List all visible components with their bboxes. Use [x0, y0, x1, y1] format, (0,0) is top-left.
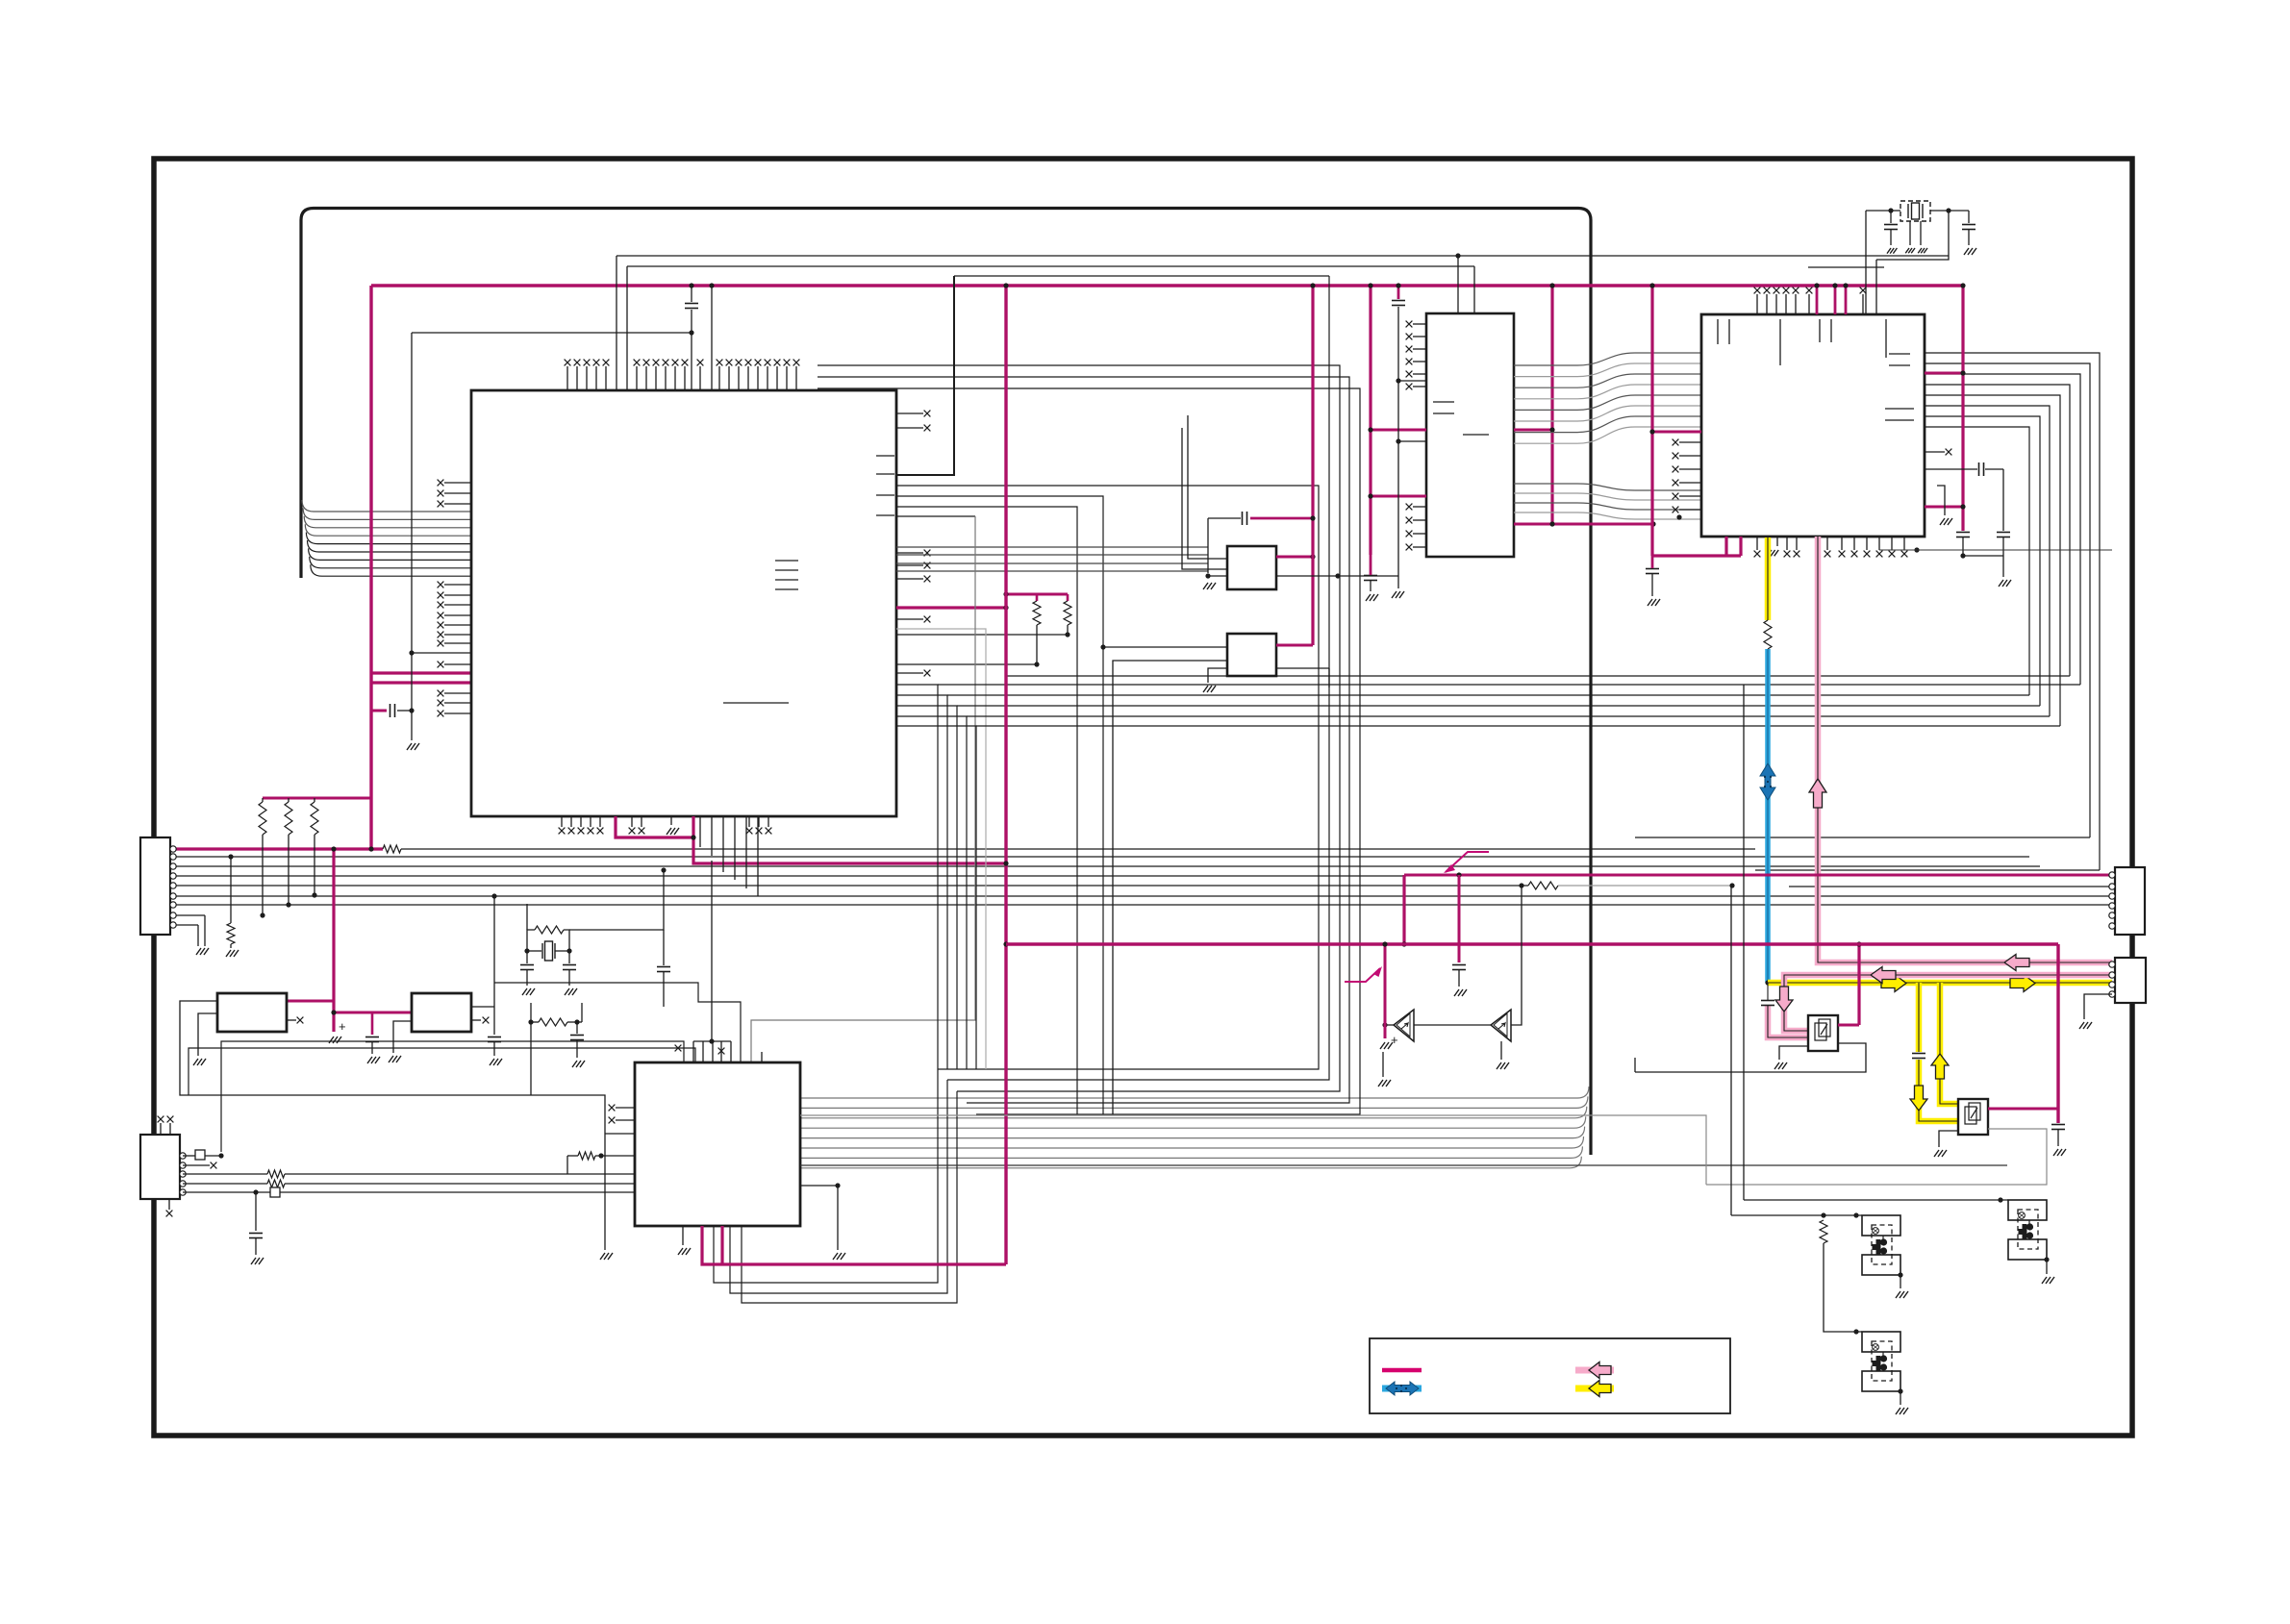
IC U1 (system controller) [471, 390, 896, 816]
buffer A2 [1491, 1010, 1511, 1041]
RC cluster center [528, 1019, 533, 1024]
power bus +B vertical left (magenta) [369, 286, 372, 849]
pin marks: U1 right internal [876, 455, 894, 457]
wire CN1 pin6 [171, 895, 2112, 897]
wire gray L x1025 [896, 629, 986, 1069]
ground X1 a [1905, 248, 1915, 253]
ground C19 [522, 988, 535, 995]
highlighted net: pink C via C17 [1768, 1006, 1808, 1037]
IC U2 (RAM) [1426, 313, 1514, 557]
power branch x1425 (magenta) [1369, 286, 1371, 555]
wire U3 gnd stub [1937, 486, 1945, 515]
wire U7 out east [1276, 575, 1398, 577]
resistor R14 [267, 1180, 285, 1187]
wire X1 case gnd a [1909, 221, 1911, 245]
node U6/bus [491, 893, 496, 898]
node R22 [1519, 883, 1523, 887]
wire x1425 to U2 (magenta) [1371, 429, 1426, 432]
ground PC3 [1896, 1408, 1908, 1414]
wire CN2 pin1 [183, 1155, 195, 1157]
wire into A1 [1385, 1024, 1394, 1026]
pin stubs: U2 left [1413, 323, 1426, 325]
wire to PC2 [1731, 1214, 1862, 1216]
capacitor C5 [488, 1037, 501, 1042]
wire +B to U1 left pin 2 (magenta) [371, 681, 471, 684]
ground Q2 [1934, 1150, 1947, 1157]
ground C8 [1366, 594, 1378, 601]
wire X1 left to U3 [1865, 211, 1867, 314]
node R3 junction [312, 892, 316, 897]
node X1 left [1888, 208, 1893, 212]
wire C7 gnd leg [1207, 518, 1209, 573]
wire U1 supply to bus x1046 (magenta) [693, 837, 1006, 863]
arrow: pink down on B [1775, 987, 1793, 1012]
wire U7 in b [1182, 428, 1227, 569]
node C1/gnd line [409, 708, 414, 712]
wire to CN3 pin2 [1789, 886, 2112, 887]
wire bus down to Q1 (magenta) [1857, 944, 1860, 1025]
crystal X2 circuit [527, 950, 541, 952]
IC U5 (reset) [217, 993, 287, 1032]
wire U1 bottom supply U-link (magenta) [616, 816, 693, 837]
ground U3 bottom [1768, 550, 1779, 556]
ground C13 [1648, 599, 1660, 606]
wire x1582 down to A2 [1511, 886, 1522, 1025]
node rail y266 / U2 pin [1455, 253, 1460, 258]
wire U4 right y1233 [800, 1185, 838, 1187]
pins: CN2 circles [180, 1153, 186, 1159]
node A1 input [1382, 1022, 1387, 1027]
ground electrolytic A1 (+) [1380, 1042, 1393, 1049]
ground C15 [1964, 248, 1976, 255]
wire X1 right return [1876, 211, 1949, 260]
wire to C20 [568, 951, 570, 963]
capacitor C10 [1956, 533, 1970, 537]
resistor R13 [267, 1170, 285, 1178]
wire U6 net to U4 pin [494, 983, 741, 1062]
ground C23 [1454, 989, 1467, 996]
wire gray U4 pin north [751, 516, 975, 1062]
wire x1382 long vertical [947, 276, 1329, 1080]
resistor R25 [1820, 1220, 1827, 1243]
ground C2 [367, 1057, 380, 1063]
capacitor C7 [1243, 512, 1247, 525]
wire pin8 to gnd [204, 915, 206, 946]
resistor R24 [539, 1018, 567, 1026]
resistor R1 pull-up [259, 802, 266, 835]
resistor R12 [227, 923, 235, 944]
wire horizontal y287 [954, 275, 1329, 277]
connector CN4 [2115, 958, 2146, 1003]
wire U3 bottom supply (magenta) [1724, 537, 1727, 556]
resistor R5 [1033, 601, 1041, 625]
power branch x1718 (magenta) [1650, 286, 1653, 556]
capacitor C6 [249, 1234, 263, 1238]
wire U1 gnd pin [670, 816, 672, 825]
connector CN2 [140, 1135, 180, 1199]
arrow: pink up [1809, 779, 1826, 808]
capacitor C20 [563, 965, 576, 970]
ground C9 [1392, 591, 1404, 598]
wire CN1 pin2 [171, 856, 2029, 858]
wire VCC from CN1 pin1 (magenta) [171, 847, 383, 850]
wire after R11 [401, 848, 1755, 850]
pin stubs: U1 left [444, 482, 471, 484]
rail y266 to X1 area [617, 255, 1949, 257]
wire C7 to bus (magenta) [1250, 517, 1313, 520]
wire U6 left low [393, 1021, 412, 1053]
ground C21 [572, 1061, 585, 1067]
node C6 tap [253, 1189, 258, 1194]
wire U5 left low [198, 1013, 217, 1056]
arrow: pink left on B [1871, 967, 1896, 984]
wire magenta to C23 [1458, 875, 1461, 962]
wire rail to U2 top pin b [1473, 266, 1475, 313]
wire Q2 emitter gray net [1706, 1129, 2047, 1185]
wire PC1 north [1743, 685, 1745, 1200]
capacitor C9 [1392, 301, 1405, 306]
wire U3 bottom rail [1879, 549, 2112, 551]
ground U5 [193, 1059, 206, 1065]
resistor R3 pull-up [311, 802, 318, 835]
wire C9 net to U2 pin a [1398, 380, 1427, 382]
node magenta#1 / C23 [1456, 872, 1461, 877]
wire R1 to bus [262, 835, 264, 915]
signal yellow to CN4 [1768, 980, 2112, 987]
wire U1 pin y660 [896, 634, 1068, 636]
rail y703 [1006, 675, 2070, 677]
pins: CN1 circles [170, 846, 176, 852]
node R2 junction [286, 902, 290, 907]
legend box [1370, 1338, 1730, 1413]
wire U1 VDD pin to bus (magenta) [896, 606, 1006, 609]
wire CN1 pin5 [171, 885, 1528, 887]
signal magenta #1 to CN3 [1404, 874, 2112, 877]
legend pink arrow sample [1575, 1367, 1614, 1374]
page frame border [154, 159, 2132, 1436]
buffer A1 [1394, 1010, 1414, 1041]
resistor R15 [578, 1152, 595, 1160]
ground R12 [226, 950, 239, 957]
wire to C19 [526, 951, 528, 963]
arrow: blue bidirectional [1760, 763, 1775, 800]
wire CN1 pin9 [171, 924, 198, 926]
wire drops: U1 bottom pins to bus [699, 816, 701, 847]
capacitor C18 [2051, 1125, 2065, 1130]
wire fan: bus loop to U1 left pins [302, 500, 471, 512]
node y679/x428 [409, 650, 414, 655]
wire nest: U4 bottom loops [714, 1069, 938, 1283]
wire X1 right leg to U3 [1875, 260, 1877, 314]
ground C14 [1887, 248, 1897, 254]
wire CN1 pin3 [171, 865, 2040, 867]
wire U1 pin y516 south [896, 496, 1103, 1114]
callout arrow a [1446, 852, 1489, 872]
wire magenta#1 corner down [1402, 875, 1405, 944]
wire U6 to C5 [493, 1007, 495, 1035]
connector CN1 [140, 837, 170, 935]
wire +B to U1 left pin (magenta) [371, 671, 471, 674]
IC U7 (EEPROM) [1227, 546, 1276, 589]
capacitor C11 [1979, 462, 1984, 476]
wire to R12 [230, 857, 232, 923]
node R1 junction [260, 912, 264, 917]
wire to C15 [1968, 211, 1970, 223]
wire C10 gnd link [1963, 555, 2003, 557]
transistor Q1 (mute) [1808, 1015, 1838, 1051]
ground X1 b [1918, 248, 1927, 253]
wire U8 in b [1113, 661, 1227, 1114]
pin x CN2 c [166, 1211, 173, 1217]
wire A2 gnd leg [1500, 1041, 1502, 1060]
wire gnd chain [1382, 1052, 1384, 1077]
wire CN4 pin4 [2084, 994, 2112, 1019]
wire rail to U6 (magenta) [334, 1012, 412, 1014]
node X1 right [1946, 208, 1950, 212]
bead FB2 [270, 1187, 280, 1197]
ground electrolytic C3 (+) [329, 1037, 341, 1043]
capacitor C19 [520, 965, 534, 970]
wire PC2 gnd [1900, 1275, 1901, 1288]
photo-interrupter PC1 [2008, 1200, 2047, 1220]
wire PC3 gnd [1900, 1391, 1901, 1405]
wire U3 pin y470 [1925, 451, 1945, 453]
pin stubs: U4 left [616, 1107, 635, 1109]
pins: CN3 circles [2109, 872, 2115, 878]
legend blue sample [1382, 1386, 1422, 1392]
wire X2 up [526, 904, 528, 930]
wire +B to C9 (magenta) [1397, 286, 1400, 299]
arrow: yellow right 1 [1881, 975, 1906, 992]
legend magenta sample [1382, 1368, 1422, 1373]
wire U1 pin y537 [896, 515, 975, 517]
arrow: pink left on A [2002, 959, 2016, 963]
highlighted net: audio (pink) B [1784, 975, 2112, 1031]
wire CN1 pin7 [171, 904, 2112, 906]
wire bundle: U2 to U3 lower [1514, 484, 1701, 490]
power branch vertical x1365 (magenta) [1311, 286, 1314, 645]
capacitor C16 [1912, 1054, 1925, 1059]
rail VDD y618 (magenta) [1006, 593, 1068, 596]
wire U8 in a [1103, 646, 1227, 648]
ground U3 right [1940, 518, 1952, 525]
wire Q2 to bus (magenta) [1988, 1108, 2058, 1111]
bead FB1 [195, 1150, 205, 1160]
wire U1 pin to +B [711, 286, 713, 390]
wire U3 pin y488 [1925, 468, 1977, 470]
node VDD/bus [1003, 605, 1008, 610]
wire U2 to U3 rail (magenta) [1514, 523, 1653, 526]
capacitor C2 [365, 1037, 379, 1042]
wire bus to U8 (magenta) [1276, 644, 1313, 647]
photo-interrupter PC3 [1862, 1332, 1900, 1352]
node on VCC pin1 wire [331, 846, 336, 851]
wire staircase return 2 [1635, 837, 2090, 838]
wire U1 pin y691 [896, 663, 1037, 665]
resistor R11 [383, 845, 401, 853]
wire x1425 to U2 b (magenta) [1371, 495, 1426, 498]
wire U8 out east [1276, 667, 1329, 669]
node R5 bottom [1034, 662, 1039, 666]
wire C11 down [2002, 469, 2004, 531]
wire X2 to north [569, 870, 664, 930]
wire U1 pin to rail y266 [616, 256, 617, 390]
wire U3 right to x2041 b (magenta) [1925, 506, 1963, 509]
IC U4 (servo DSP) [635, 1062, 800, 1226]
wire magenta#2 branch to gnd [1384, 944, 1387, 1038]
pin marks: U1 internal [775, 560, 798, 562]
transistor Q2 (mute) [1958, 1099, 1988, 1135]
IC U8 (driver) [1227, 634, 1276, 676]
power bus vertical x1046 (magenta) [1004, 286, 1007, 1264]
ground CN4 [2079, 1022, 2092, 1029]
wire U5 out to rail (magenta) [287, 1000, 334, 1003]
wire C9 down [1397, 307, 1399, 588]
wire R3 to bus [314, 835, 315, 895]
ground U4 right [833, 1253, 845, 1260]
ground A2 [1497, 1062, 1509, 1069]
ground U8 [1203, 686, 1216, 692]
wire R25 to PC3 [1824, 1243, 1862, 1332]
wire U3 right to x2041 (magenta) [1925, 372, 1963, 375]
legend yellow arrow sample [1575, 1386, 1614, 1392]
wire branch to U4 left [605, 1133, 635, 1135]
ground C5 [490, 1059, 502, 1065]
capacitor C21 [570, 1036, 584, 1040]
ground C7 [1203, 583, 1216, 589]
wire U1 pin to rail y277 [626, 266, 628, 390]
capacitor C1 [390, 704, 395, 717]
pin marks: U3 right internal [1889, 353, 1910, 355]
wire U4 pin to CN2 pin1 [221, 1041, 684, 1152]
pin stubs: U1 right [896, 412, 923, 414]
wire U8 gnd leg [1208, 668, 1227, 683]
resistor R2 pull-up [285, 802, 292, 835]
wire U4 right y1212 [800, 1164, 2007, 1166]
wire CN2 pin3 [183, 1173, 267, 1175]
wire horizontal y346 [412, 332, 692, 334]
wire U6 out [471, 1006, 494, 1008]
pin stubs: U1 bottom [561, 816, 563, 827]
resistor R6 [1064, 601, 1071, 625]
wire bundle: U1 right nest [896, 486, 1319, 1069]
power branch vertical x347 (magenta) [332, 849, 335, 1032]
node bus corner [368, 846, 373, 851]
wire +B to C4 [691, 286, 692, 302]
wire bundle: U2 to U3 (S-curves) [1514, 353, 1701, 365]
ground x629 [600, 1253, 613, 1260]
capacitor C23 [1452, 965, 1466, 970]
wire CN1 pin4 [171, 875, 1406, 877]
wire rail to U2 top pin [1457, 256, 1459, 313]
ground C18 [2053, 1149, 2066, 1156]
highlighted net: audio (pink) A [1818, 537, 2112, 962]
wire band: middle horizontal rails [896, 685, 938, 1069]
wire U7 in c [1208, 575, 1227, 577]
pin stubs: U3 top [1756, 294, 1758, 314]
power branch x2041 (magenta) [1961, 286, 1964, 531]
ground Q1 [1774, 1062, 1787, 1069]
wire U7 to bus (magenta) [1276, 556, 1313, 559]
wire CN1 pin8 [171, 914, 205, 916]
wire U6 up north [493, 896, 495, 1007]
svg-text:+: + [1391, 1033, 1398, 1047]
wire U5 in loop to U4 [180, 1001, 605, 1250]
wire +B decoupling stub (magenta) [371, 710, 387, 712]
pin x CN2 a [158, 1116, 164, 1123]
pin marks: U2 internal [1433, 401, 1454, 403]
wire U1 pin y679 [412, 652, 471, 654]
wire risers: U4 top pins [693, 1040, 731, 1042]
wire U1 pin y527 south [896, 507, 1077, 1115]
arrow: yellow down [1910, 1086, 1927, 1111]
ground U1 [667, 828, 679, 835]
ground below A1 [1378, 1080, 1391, 1087]
bus loop frame (IC1-IC5 harness) [301, 209, 1591, 1156]
svg-text:+: + [339, 1019, 346, 1034]
wire to PC1 [1744, 1199, 2008, 1201]
wire CN2 pin2 [183, 1164, 210, 1166]
wire R2 to bus [288, 835, 289, 905]
pin marks: U3 internal top [1717, 319, 1719, 344]
wire gray y921 [1558, 885, 1732, 887]
pin x U6 [483, 1017, 490, 1024]
rail y277 to U2 [627, 265, 1474, 267]
connector CN3 [2115, 867, 2145, 935]
ground PC1 [2042, 1277, 2054, 1284]
ground C1 [407, 743, 419, 750]
wire segment to U3 top [1808, 266, 1884, 268]
capacitor C15 [1962, 225, 1975, 230]
capacitor C22 [657, 967, 670, 972]
node R6 bottom [1065, 632, 1070, 637]
wire staircase: U4 right pins [1925, 353, 2100, 870]
wire resistor rail (magenta) [263, 797, 371, 800]
wire Q1 to bus (magenta) [1838, 1024, 1859, 1027]
wire staircase outer return [1755, 869, 2100, 871]
IC U6 (regulator) [412, 993, 471, 1032]
power branch x1614 (magenta) [1550, 286, 1553, 524]
node +B / C4 [689, 283, 693, 287]
wire x552 link [530, 1003, 532, 1095]
ground C11/C12 [1999, 580, 2011, 587]
arrow: yellow right 2 [2010, 975, 2035, 992]
callout arrow b [1345, 968, 1380, 982]
pins: CN4 circles [2109, 962, 2115, 967]
wire: U4 bottom magenta U [702, 1226, 1006, 1264]
wire Q2 gnd [1939, 1131, 1958, 1147]
IC U3 (RF amp) [1701, 314, 1925, 537]
signal yellow branch down [1916, 983, 1923, 1052]
wire U4 gnd pin [682, 1226, 684, 1245]
capacitor C8 [1364, 576, 1377, 581]
capacitor C17 [1761, 1001, 1774, 1006]
wire C9 net to U2 pin b [1398, 440, 1427, 442]
capacitor C14 [1884, 225, 1898, 230]
node blue/yellow [1765, 980, 1770, 985]
wire vertical x428 [411, 333, 413, 740]
resistor R21 [1764, 620, 1772, 649]
resistor R23 [535, 926, 564, 934]
highlighted net: EFM (yellow+blue) [1765, 537, 1772, 620]
wire Q1 emitter net [1635, 1043, 1866, 1072]
pin stubs: U3 left [1679, 441, 1701, 443]
ground C6 [251, 1258, 264, 1264]
wire x1718 to U3 left (magenta) [1652, 431, 1701, 434]
wire U4 pin west rail [189, 1048, 695, 1095]
resistor R22 [1528, 882, 1558, 889]
ground U6 [389, 1056, 401, 1062]
